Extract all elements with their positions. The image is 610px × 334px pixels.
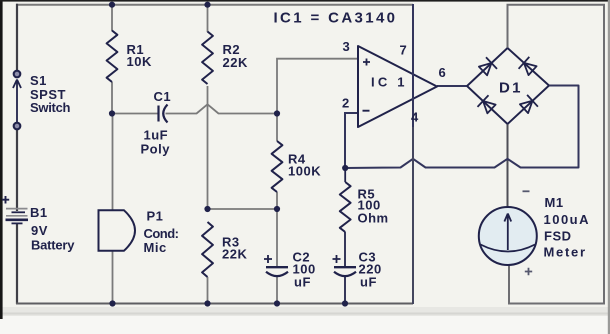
wire C1 right segment with hop over R2 column [166, 104, 278, 113]
diode D1d bottom-to-right [520, 101, 533, 113]
svg-text:uF: uF [294, 275, 311, 290]
svg-text:P1: P1 [147, 209, 164, 224]
resistor R3 22K [202, 222, 213, 277]
svg-text:3: 3 [343, 39, 351, 54]
svg-text:S1: S1 [30, 73, 47, 88]
op-amp U1 triangle [358, 46, 437, 127]
battery B1 plate long thick [6, 219, 29, 222]
capacitor C1 left plate [157, 106, 159, 122]
op-amp minus input mark [363, 110, 370, 112]
capacitor C2 top plate [266, 266, 288, 268]
wire op-amp pin2 [345, 113, 358, 168]
svg-text:100uA: 100uA [544, 212, 590, 227]
svg-text:Poly: Poly [141, 142, 171, 157]
op-amp plus input mark [363, 59, 370, 66]
battery B1 plus sign [2, 196, 9, 204]
svg-text:22K: 22K [222, 247, 247, 262]
microphone P1 body [99, 210, 136, 250]
wire R2 column top [207, 4, 209, 32]
diode D1c bottom-to-left [483, 101, 496, 113]
wire op-amp pin6 output [437, 85, 467, 87]
svg-text:Battery: Battery [31, 237, 75, 252]
junction bottom rail / mic [109, 300, 115, 306]
svg-text:FSD: FSD [544, 229, 572, 244]
wire bridge top riser and outer loop to meter plus [508, 5, 605, 304]
image border top [0, 0, 610, 2]
switch S1 arm with arrowhead [13, 80, 21, 124]
svg-text:Ohm: Ohm [358, 211, 389, 226]
capacitor C2 plus sign [264, 255, 272, 263]
wire node to mic P1 [112, 114, 114, 211]
wire R4 bottom to node [276, 192, 278, 210]
battery B1 plate long top [6, 208, 28, 210]
bridge D1 edge top-right [508, 48, 550, 86]
wire pin2 feedback to bridge right with hops [345, 86, 578, 169]
resistor R1 10K [107, 31, 118, 83]
junction top rail / R2 [204, 2, 210, 8]
wire R3/C2 cross link [208, 208, 278, 210]
svg-text:9V: 9V [31, 223, 48, 238]
svg-text:10K: 10K [127, 54, 152, 69]
meter M1 body [479, 207, 537, 265]
image border right [608, 0, 610, 334]
wire R3 bottom to rail [207, 277, 209, 304]
junction bottom rail / R3 [204, 300, 210, 306]
wire R1 column top [111, 4, 113, 31]
junction top rail / R1 [109, 2, 115, 8]
wire mic P1 to bottom rail [112, 251, 114, 304]
svg-text:D1: D1 [499, 80, 521, 97]
wire R1 to C1 node [111, 82, 113, 114]
wire left rail lower [16, 223, 18, 304]
wire C1 left segment [112, 113, 158, 115]
svg-text:2: 2 [342, 96, 350, 111]
svg-text:C1: C1 [154, 89, 172, 104]
switch S1 top contact [14, 71, 21, 78]
meter M1 minus sign [523, 190, 530, 192]
wire R5 top [344, 168, 346, 182]
wire bridge bottom riser to meter [507, 124, 509, 208]
wire R4 node to R4 [276, 114, 278, 142]
bridge D1 edge bottom-right [508, 86, 550, 125]
wire top rail [16, 4, 413, 6]
wire pin7/pin4 rail column (crosses op-amp) [412, 4, 414, 127]
junction R1 / C1 / mic [109, 110, 115, 116]
wire C3 bottom to rail [344, 276, 346, 304]
wire C2 column upper [276, 209, 278, 267]
junction bottom rail / C2 [274, 300, 280, 306]
capacitor C3 top plate [334, 266, 356, 268]
wire C2 column lower [276, 276, 278, 304]
svg-text:uF: uF [360, 275, 377, 290]
switch S1 bottom contact [14, 123, 21, 130]
wire R2 bottom to node [207, 86, 209, 209]
svg-text:Mic: Mic [144, 240, 167, 255]
bridge D1 edge top-left [467, 48, 508, 86]
junction R2 / R3 node [204, 206, 210, 212]
capacitor C3 curved plate [334, 272, 356, 276]
svg-text:22K: 22K [223, 55, 248, 70]
capacitor C2 curved plate [266, 272, 288, 276]
battery B1 plate short [12, 211, 26, 213]
svg-text:1uF: 1uF [144, 128, 169, 143]
svg-text:B1: B1 [30, 205, 48, 220]
svg-text:Meter: Meter [544, 244, 586, 259]
junction bottom rail / C3 [342, 300, 348, 306]
resistor R4 100K [272, 141, 283, 192]
junction pin2 / R5 node [342, 165, 348, 171]
wire left rail upper [16, 4, 18, 71]
junction R4 / C2 node [274, 206, 280, 212]
battery B1 plate long mid [6, 215, 28, 217]
wire bottom rail [16, 303, 413, 305]
meter M1 needle [504, 214, 511, 251]
capacitor C3 plus sign [333, 255, 341, 263]
wire R5 bottom to C3 [344, 232, 346, 267]
wire pin3 riser [277, 59, 358, 114]
svg-text:Switch: Switch [30, 100, 71, 115]
svg-text:M1: M1 [545, 195, 564, 210]
svg-text:Cond:: Cond: [144, 226, 180, 241]
image border left [0, 0, 3, 319]
junction C1 / R4 / pin3 [274, 110, 280, 116]
battery B1 plate short bottom [12, 222, 23, 224]
wire pin4 column lower [412, 127, 414, 304]
diode D1a left-to-top [479, 63, 492, 75]
capacitor C1 right curved plate [163, 105, 167, 123]
wire left rail middle [16, 129, 18, 211]
svg-text:7: 7 [400, 43, 408, 58]
resistor R5 100 Ohm [340, 182, 351, 232]
svg-text:4: 4 [411, 110, 419, 125]
svg-text:6: 6 [439, 65, 447, 80]
resistor R2 22K [202, 32, 213, 85]
bridge D1 edge bottom-left [467, 86, 508, 124]
meter M1 plus sign [525, 268, 532, 275]
svg-text:100K: 100K [288, 164, 321, 179]
diode D1b right-to-top [524, 63, 537, 75]
meter M1 scale arc [481, 245, 536, 252]
